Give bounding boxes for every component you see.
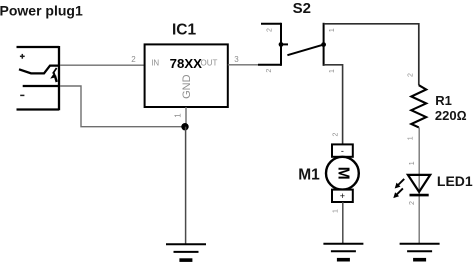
svg-text:2: 2 [332,132,339,136]
svg-text:1: 1 [409,161,416,165]
junction dot [181,123,188,130]
wire plug minus to ground rail [60,86,183,127]
ground under LED1 [400,244,440,262]
svg-text:2: 2 [408,73,415,77]
svg-text:R1: R1 [435,93,452,108]
svg-text:2: 2 [409,201,416,205]
svg-text:1: 1 [329,69,336,73]
power plug plus sign [20,54,25,59]
LED1 emission arrow lower [393,188,403,198]
svg-text:1: 1 [173,113,182,118]
svg-text:Power plug1: Power plug1 [0,3,83,19]
S2 pivot dot left [279,42,284,47]
ground under M1 [323,244,363,262]
svg-text:1: 1 [408,136,415,140]
resistor R1 [411,85,426,127]
wire R1 to LED1 to ground [418,127,420,244]
wire dot to ground [185,127,187,244]
wire IC1 OUT to S2 [228,64,263,66]
svg-text:IC1: IC1 [172,22,197,39]
svg-text:M: M [334,167,351,180]
S2 pivot dot right [321,42,326,47]
svg-text:78XX: 78XX [170,56,202,71]
svg-text:LED1: LED1 [437,173,473,189]
svg-text:1: 1 [329,28,336,32]
svg-text:3: 3 [234,55,239,64]
svg-text:2: 2 [266,28,273,32]
svg-text:+: + [340,191,345,201]
wire plug plus to IC1 IN [60,64,145,66]
svg-text:S2: S2 [293,0,311,17]
svg-text:2: 2 [266,69,273,73]
IC1 box [145,44,228,107]
svg-text:IN: IN [151,59,159,68]
svg-text:1: 1 [333,209,340,213]
wire M1 to ground [342,202,344,244]
svg-text:2: 2 [131,55,136,64]
wire S2 to R1 [324,24,419,85]
power plug lightning arrow [50,68,57,82]
LED LED1 [408,175,430,195]
svg-text:M1: M1 [298,167,320,184]
power plug J1 [17,46,60,110]
switch S2 [258,23,324,66]
IC1 pin 1 stub [185,107,187,124]
svg-text:OUT: OUT [201,59,218,68]
ground under IC1 [166,244,206,262]
svg-text:GND: GND [181,74,193,99]
motor M1 [326,144,359,202]
wire S2 to M1 [324,65,343,145]
power plug minus sign [20,94,24,96]
LED1 emission arrow upper [395,179,405,189]
svg-text:220Ω: 220Ω [435,108,467,123]
svg-text:-: - [341,146,344,156]
